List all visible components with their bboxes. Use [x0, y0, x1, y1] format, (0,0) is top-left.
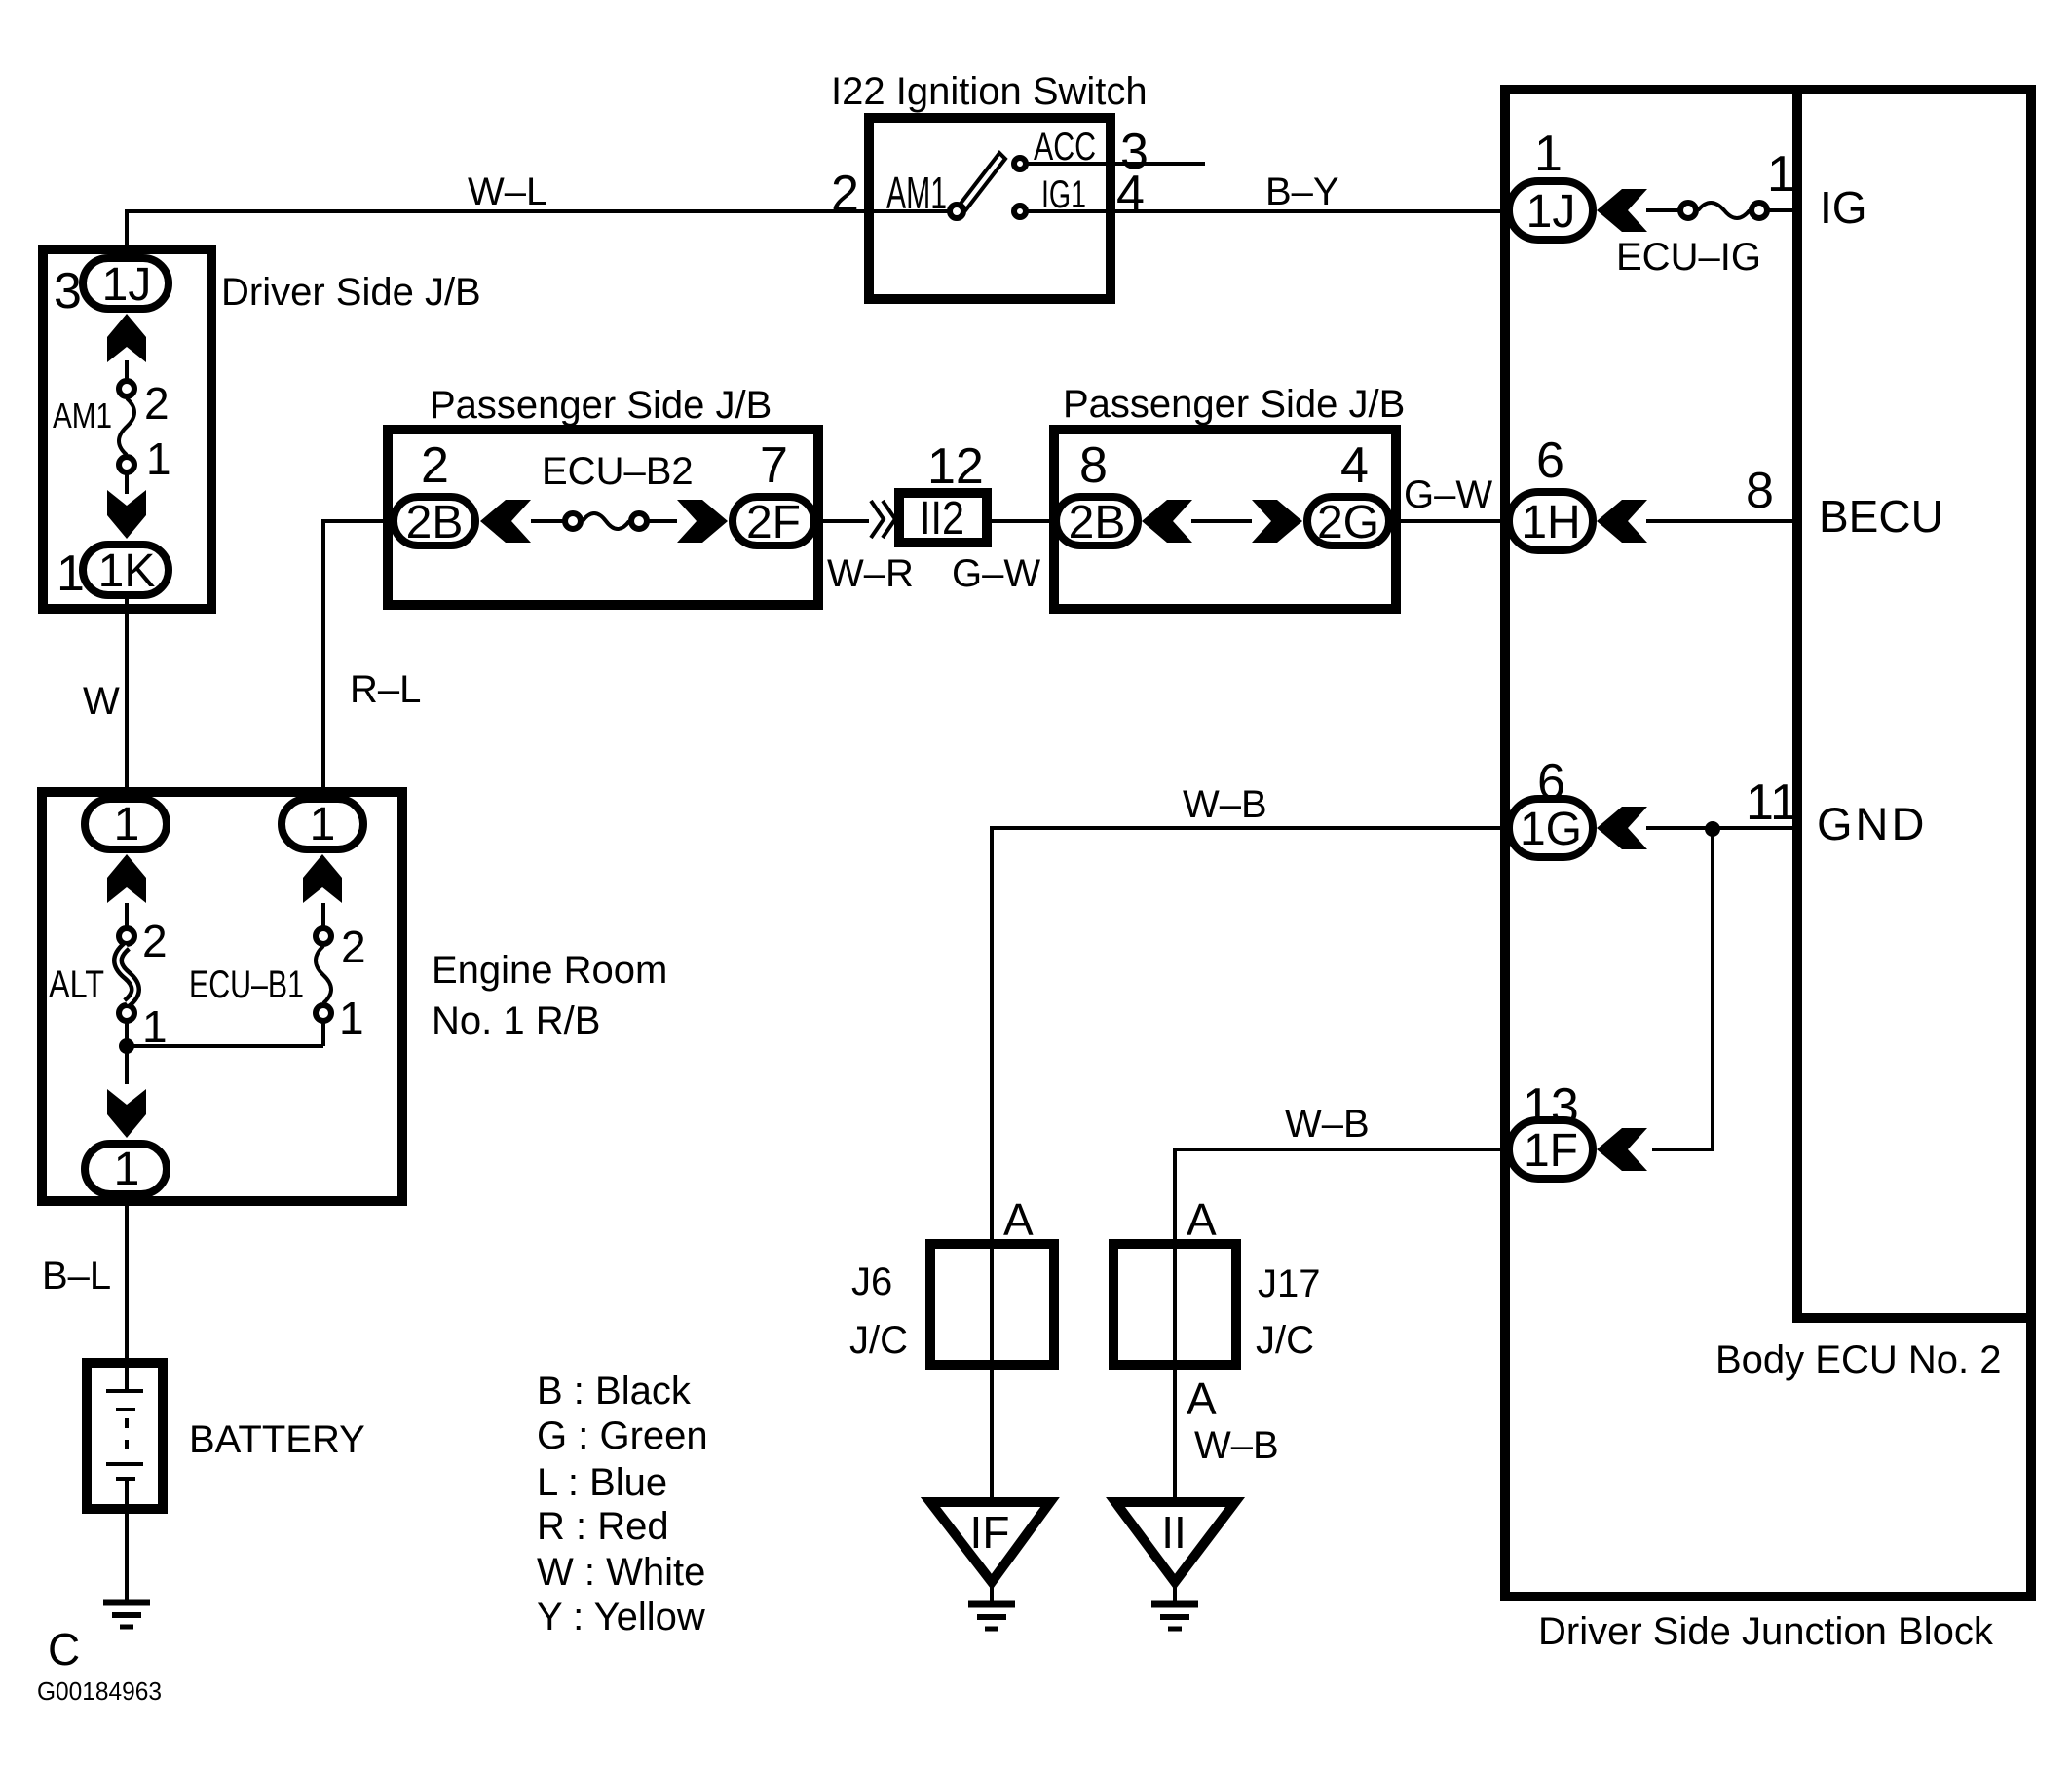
svg-text:II2: II2	[920, 493, 964, 545]
svg-text:2G: 2G	[1317, 497, 1379, 548]
svg-text:IG1: IG1	[1041, 173, 1086, 216]
svg-text:A: A	[1187, 1374, 1217, 1424]
svg-text:4: 4	[1116, 166, 1145, 222]
svg-text:W–B: W–B	[1183, 783, 1267, 826]
svg-text:W–B: W–B	[1194, 1424, 1279, 1467]
svg-text:1: 1	[114, 799, 140, 850]
svg-text:8: 8	[1079, 437, 1108, 494]
svg-text:1: 1	[339, 993, 364, 1043]
svg-text:R–L: R–L	[350, 668, 421, 711]
svg-text:ECU–IG: ECU–IG	[1616, 236, 1761, 279]
svg-text:AM1: AM1	[886, 168, 947, 218]
svg-text:II: II	[1161, 1507, 1187, 1558]
svg-text:J17: J17	[1258, 1262, 1321, 1305]
svg-text:W–R: W–R	[827, 552, 914, 595]
svg-text:1: 1	[142, 1001, 168, 1052]
svg-text:IG: IG	[1820, 182, 1867, 233]
svg-text:R : Red: R : Red	[537, 1505, 669, 1548]
svg-text:ACC: ACC	[1034, 126, 1096, 169]
svg-text:J6: J6	[851, 1261, 892, 1303]
svg-text:C: C	[48, 1624, 80, 1675]
svg-text:8: 8	[1746, 463, 1774, 519]
svg-text:G00184963: G00184963	[37, 1676, 162, 1706]
svg-text:J/C: J/C	[849, 1319, 908, 1362]
svg-text:Y : Yellow: Y : Yellow	[537, 1596, 705, 1638]
svg-text:1H: 1H	[1521, 497, 1580, 548]
svg-text:B : Black: B : Black	[537, 1370, 692, 1412]
svg-text:ALT: ALT	[49, 963, 104, 1006]
svg-text:2: 2	[341, 922, 366, 972]
svg-text:Body ECU No. 2: Body ECU No. 2	[1715, 1338, 2001, 1381]
svg-text:GND: GND	[1817, 798, 1927, 849]
svg-text:J/C: J/C	[1256, 1319, 1314, 1362]
svg-text:1: 1	[310, 799, 336, 850]
svg-text:1: 1	[146, 433, 171, 484]
svg-text:Passenger Side J/B: Passenger Side J/B	[430, 384, 772, 427]
svg-text:11: 11	[1746, 774, 1798, 831]
svg-text:Engine Room: Engine Room	[432, 949, 667, 992]
svg-text:Driver Side Junction Block: Driver Side Junction Block	[1538, 1610, 1994, 1653]
svg-text:No. 1 R/B: No. 1 R/B	[432, 999, 600, 1042]
svg-text:2: 2	[421, 437, 449, 494]
svg-text:1: 1	[1534, 126, 1563, 182]
svg-text:1K: 1K	[98, 546, 156, 597]
svg-text:1: 1	[114, 1144, 140, 1195]
svg-text:6: 6	[1536, 433, 1564, 489]
svg-text:AM1: AM1	[53, 395, 112, 435]
svg-text:W–L: W–L	[468, 170, 547, 213]
svg-text:3: 3	[54, 263, 82, 320]
svg-text:A: A	[1187, 1194, 1217, 1245]
svg-text:1J: 1J	[102, 259, 152, 311]
svg-text:1J: 1J	[1526, 186, 1576, 238]
svg-text:L : Blue: L : Blue	[537, 1461, 667, 1504]
svg-text:BECU: BECU	[1819, 491, 1943, 542]
svg-text:IF: IF	[970, 1507, 1010, 1558]
svg-text:B–Y: B–Y	[1265, 170, 1339, 213]
svg-text:1F: 1F	[1524, 1125, 1578, 1177]
svg-text:I22 Ignition Switch: I22 Ignition Switch	[831, 70, 1148, 113]
svg-text:ECU–B1: ECU–B1	[189, 963, 304, 1006]
svg-text:12: 12	[927, 438, 984, 495]
svg-text:W: W	[83, 680, 120, 723]
svg-text:2B: 2B	[1069, 497, 1126, 548]
svg-text:6: 6	[1537, 754, 1565, 810]
svg-text:1: 1	[57, 546, 85, 602]
svg-text:1: 1	[1767, 146, 1795, 203]
svg-text:2B: 2B	[406, 497, 464, 548]
svg-text:BATTERY: BATTERY	[189, 1418, 365, 1461]
svg-text:7: 7	[760, 437, 788, 494]
svg-text:1G: 1G	[1520, 804, 1582, 855]
svg-text:A: A	[1003, 1194, 1034, 1245]
svg-text:W : White: W : White	[537, 1551, 705, 1594]
svg-text:2: 2	[831, 166, 859, 222]
svg-text:Passenger Side J/B: Passenger Side J/B	[1063, 383, 1405, 426]
svg-text:2F: 2F	[746, 497, 801, 548]
svg-text:W–B: W–B	[1285, 1103, 1370, 1146]
svg-text:2: 2	[144, 378, 170, 429]
svg-text:2: 2	[142, 916, 168, 966]
svg-text:ECU–B2: ECU–B2	[542, 450, 694, 493]
svg-text:G : Green: G : Green	[537, 1414, 708, 1457]
svg-text:Driver Side J/B: Driver Side J/B	[221, 271, 481, 314]
svg-text:4: 4	[1340, 437, 1369, 494]
svg-text:B–L: B–L	[42, 1255, 111, 1298]
svg-text:G–W: G–W	[1404, 473, 1492, 516]
svg-text:G–W: G–W	[952, 552, 1040, 595]
